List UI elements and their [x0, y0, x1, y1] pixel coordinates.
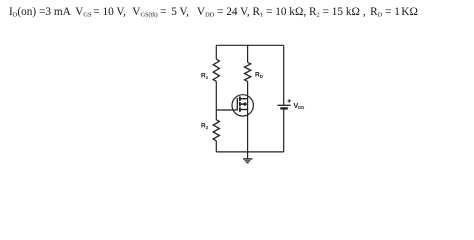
plus sign [288, 99, 291, 102]
ground [243, 159, 252, 163]
wire left branch bottom (R2 to bottom rail) [215, 141, 217, 152]
wire top rail [216, 44, 283, 46]
wire MOSFET source to bottom rail [247, 110, 249, 152]
resistor R1 [201, 59, 219, 81]
wire left branch top (top rail to R1) [215, 45, 217, 59]
transistor Q1 (enhancement NMOS) [232, 95, 253, 116]
tap body with arrow [240, 103, 248, 105]
drain/source vertical inside circle [247, 99, 249, 110]
channel segment source [239, 107, 241, 112]
channel segment body [239, 102, 241, 107]
svg-text:RD: RD [255, 72, 264, 80]
svg-text:R2: R2 [201, 122, 209, 130]
svg-text:R1: R1 [201, 72, 209, 80]
wire gate lead [216, 109, 237, 111]
node gate junction [215, 110, 217, 120]
header parameter text [9, 7, 418, 18]
svg-text:VDD: VDD [294, 103, 305, 110]
wire left branch middle (R1 to gate node) [215, 81, 217, 110]
gate bar [236, 98, 238, 111]
resistor RD [245, 62, 264, 81]
wire battery to bottom rail [283, 108, 285, 151]
battery VDD [278, 99, 305, 110]
channel segment drain [239, 97, 241, 102]
tap drain [240, 98, 248, 100]
wire bottom rail [216, 151, 283, 153]
wire middle branch top (top rail to RD) [247, 45, 249, 62]
tap source [240, 109, 248, 111]
wire right branch top (top rail to battery) [283, 45, 285, 105]
resistor R2 [201, 120, 219, 141]
wire ground stem [247, 152, 249, 159]
wire RD to MOSFET drain [247, 81, 249, 98]
